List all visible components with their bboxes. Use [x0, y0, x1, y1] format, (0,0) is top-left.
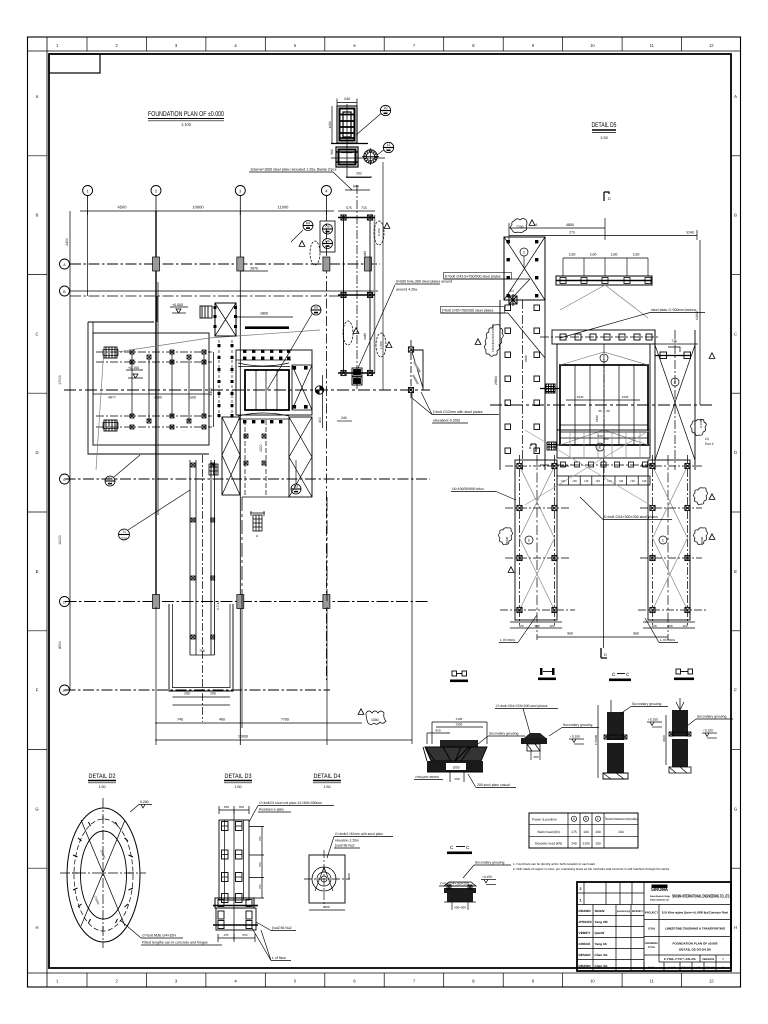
svg-text:DWG: DWG [648, 967, 654, 970]
right tower base dims [643, 621, 695, 623]
plate square [309, 855, 345, 903]
inner ellipse [81, 831, 127, 919]
grid bubble 2 [151, 186, 161, 196]
svg-text:435: 435 [223, 933, 228, 937]
grid bubble row A [60, 259, 70, 269]
section mark D top [604, 192, 609, 201]
svg-text:16×100/50/800 holes: 16×100/50/800 holes [452, 487, 484, 491]
grid bubble 4 [321, 186, 331, 196]
section 3 tall column [594, 700, 668, 779]
horizontal gridline B [70, 290, 378, 292]
svg-text:E: E [734, 569, 737, 574]
svg-text:MODIFY: MODIFY [632, 910, 643, 913]
svg-text:Fitted lengths can in concrete: Fitted lengths can in concrete and hinge… [142, 941, 208, 945]
svg-text:202: 202 [356, 172, 362, 176]
lower bolt row dash-dot lines [96, 415, 212, 417]
svg-text:930: 930 [597, 434, 602, 438]
svg-text:500: 500 [454, 777, 459, 781]
svg-text:elevation 1.20m: elevation 1.20m [335, 839, 359, 843]
svg-text:A: A [36, 94, 39, 99]
project row [644, 919, 731, 921]
svg-text:E=bolt ∅42.5×750/200 steel pla: E=bolt ∅42.5×750/200 steel plates [445, 275, 501, 279]
cloud A top [374, 221, 384, 245]
lower centre bay [245, 420, 266, 497]
svg-text:2: 2 [580, 887, 582, 891]
bolt cage upper [337, 106, 357, 143]
base block [336, 147, 358, 167]
svg-text:1500: 1500 [188, 396, 196, 400]
trench dim [190, 654, 215, 656]
svg-text:12: 12 [709, 979, 714, 984]
svg-text:DESIGN: DESIGN [579, 953, 592, 957]
svg-text:12: 12 [709, 43, 714, 48]
svg-text:11: 11 [650, 43, 655, 48]
svg-text:20: 20 [384, 106, 388, 110]
svg-text:C: C [63, 478, 66, 482]
svg-text:D4: D4 [306, 221, 310, 225]
inner heavy frame [49, 54, 731, 968]
section title D-D right [674, 669, 694, 680]
svg-text:1940: 1940 [577, 395, 584, 399]
bolt rows inside [222, 822, 243, 903]
svg-text:VERIFY: VERIFY [579, 931, 592, 935]
svg-text:Group Corporation Ltd.: Group Corporation Ltd. [650, 899, 669, 902]
svg-text:T1: T1 [122, 530, 126, 534]
svg-text:1100: 1100 [590, 253, 597, 257]
svg-text:1100: 1100 [569, 253, 576, 257]
svg-text:200 steel plate casual: 200 steel plate casual [477, 783, 510, 787]
svg-text:844: 844 [353, 185, 359, 189]
strip verticals [344, 215, 371, 373]
svg-text:Secondary grouting: Secondary grouting [632, 702, 662, 706]
svg-text:∅=bolt∅×32mm with steel plate: ∅=bolt∅×32mm with steel plate [335, 832, 383, 836]
bottom dims 435 635 [218, 937, 255, 939]
item row [644, 936, 731, 938]
base plate lower [216, 908, 256, 930]
dim line inside plant [93, 393, 209, 395]
svg-text:770: 770 [671, 339, 677, 343]
svg-text:175: 175 [571, 830, 577, 834]
svg-text:300: 300 [330, 149, 334, 155]
left vertical dims [69, 211, 71, 296]
svg-text:400: 400 [318, 417, 322, 423]
svg-text:1:50: 1:50 [324, 785, 331, 789]
svg-text:C: C [734, 331, 737, 336]
svg-text:10000: 10000 [238, 735, 248, 739]
svg-text:1:100: 1:100 [181, 122, 192, 127]
svg-text:D4: D4 [325, 239, 329, 243]
svg-text:Dynamic load (kN): Dynamic load (kN) [535, 842, 562, 846]
leader from beam [560, 285, 648, 318]
svg-text:575: 575 [346, 206, 352, 210]
svg-text:Secondary grouting: Secondary grouting [489, 732, 519, 736]
svg-text:∅=bolt∅6 steel rod plate 12×30: ∅=bolt∅6 steel rod plate 12×300×300mm [259, 801, 322, 805]
grid bubble 3 [235, 186, 245, 196]
svg-text:+0.100: +0.100 [703, 729, 713, 733]
svg-text:ITEM: ITEM [648, 927, 655, 931]
svg-text:740: 740 [630, 479, 635, 483]
740 dimension strip [557, 476, 650, 485]
column D4 [323, 595, 330, 609]
svg-text:1800: 1800 [260, 312, 268, 316]
inner dims [566, 399, 640, 401]
svg-text:2400: 2400 [65, 238, 69, 246]
svg-text:[=bolt ∅42×750/200 steel plate: [=bolt ∅42×750/200 steel plates [442, 309, 493, 313]
svg-text:D: D [608, 197, 611, 201]
svg-text:PROJECT: PROJECT [645, 911, 659, 915]
svg-text:740: 740 [618, 479, 623, 483]
svg-text:L of notes: L of notes [660, 638, 675, 642]
svg-text:17000: 17000 [58, 375, 62, 385]
hatched beam [245, 326, 289, 330]
svg-text:DRAWN: DRAWN [579, 964, 592, 968]
leader to hole label [358, 285, 395, 368]
dim 240 top [337, 102, 357, 104]
svg-text:Sinoma Research & Design: Sinoma Research & Design [650, 895, 670, 898]
svg-text:Chen XG: Chen XG [595, 964, 609, 968]
horizontal gridline C dash-dot [65, 478, 431, 480]
svg-text:1=5000: 1=5000 [594, 735, 598, 745]
callout bubble 1 [380, 105, 390, 115]
svg-text:Static load (kN): Static load (kN) [537, 830, 560, 834]
svg-text:200: 200 [533, 755, 538, 759]
svg-text:D: D [35, 450, 38, 455]
svg-text:500: 500 [603, 437, 608, 441]
svg-text:270: 270 [569, 231, 575, 235]
anchor block lower-left hatched [103, 420, 118, 431]
strip top dims [338, 210, 375, 212]
svg-text:1100: 1100 [633, 253, 640, 257]
svg-text:1. Fixed bars can be directly: 1. Fixed bars can be directly at the bol… [513, 862, 595, 866]
svg-text:SCALE: SCALE [682, 967, 691, 970]
svg-text:240: 240 [341, 416, 347, 420]
svg-text:D1: D1 [108, 477, 112, 481]
svg-text:1000: 1000 [371, 718, 379, 722]
svg-text:DETAIL D5: DETAIL D5 [592, 122, 617, 129]
strip bolts [341, 215, 346, 220]
plant outer boundary [88, 322, 209, 454]
strip beams [338, 218, 375, 374]
column body [219, 820, 249, 900]
svg-text:QianW: QianW [595, 931, 605, 935]
D5 bubble with long leader [311, 305, 321, 315]
svg-text:L of flare: L of flare [272, 956, 286, 960]
right dim chain [261, 827, 263, 899]
svg-text:E: E [36, 569, 39, 574]
svg-text:4100: 4100 [456, 717, 463, 721]
right tower outer [648, 460, 690, 620]
svg-text:D3: D3 [294, 485, 298, 489]
left tower outer [515, 460, 557, 620]
bolt circle dashed ellipse [74, 819, 133, 931]
svg-text:+0.150: +0.150 [648, 718, 658, 722]
svg-text:650: 650 [224, 805, 229, 809]
svg-text:19600: 19600 [505, 536, 509, 545]
bottom bolt band [238, 418, 290, 420]
gridline through D5 [490, 404, 712, 406]
svg-text:1200: 1200 [347, 873, 351, 880]
svg-text:VERSION: VERSION [702, 958, 714, 961]
svg-text:D: D [63, 600, 66, 604]
svg-text:Yang XM: Yang XM [595, 920, 608, 924]
svg-text:740: 740 [572, 479, 577, 483]
left ruler band line [46, 37, 48, 987]
main pit top band [540, 330, 660, 344]
svg-text:D: D [734, 450, 737, 455]
dark node circle on gridline [315, 386, 323, 394]
top dimension line [80, 196, 334, 216]
left tower bolts [517, 463, 522, 468]
svg-text:200: 200 [184, 692, 190, 696]
crosshair [60, 872, 146, 874]
svg-text:10200: 10200 [695, 311, 699, 320]
left tower X braces [520, 466, 555, 610]
bolt pairs lower row [130, 414, 134, 418]
bottom overall dims [536, 634, 538, 640]
flange ring top view [362, 148, 379, 165]
svg-text:1500: 1500 [595, 415, 599, 422]
column A5 [365, 257, 372, 271]
svg-text:F756-77C*-45-01: F756-77C*-45-01 [664, 957, 697, 961]
svg-text:120: 120 [518, 624, 523, 628]
title box top-left [49, 54, 100, 73]
svg-text:635: 635 [242, 933, 247, 937]
svg-text:4400: 4400 [209, 388, 213, 396]
svg-text:L of notes: L of notes [500, 638, 515, 642]
vertical dim right [699, 240, 701, 405]
svg-text:25800: 25800 [494, 376, 498, 385]
svg-text:1:50: 1:50 [600, 136, 607, 140]
main pit body [557, 344, 650, 445]
top ruler band line [28, 50, 742, 52]
svg-text:1:100: 1:100 [669, 967, 676, 970]
right X column upper [655, 330, 695, 470]
svg-text:D5: D5 [314, 306, 318, 310]
svg-text:2190: 2190 [582, 842, 590, 846]
number row [644, 955, 731, 971]
svg-text:Secondary grouting: Secondary grouting [563, 723, 593, 727]
horizontal gridline E dash-dot [65, 689, 331, 691]
svg-text:8500: 8500 [58, 641, 62, 649]
svg-text:240: 240 [344, 97, 350, 101]
beam body above [557, 430, 650, 458]
drawing title row [644, 954, 731, 956]
svg-text:Secondary grouting: Secondary grouting [475, 861, 505, 865]
svg-text:G: G [734, 806, 737, 811]
svg-text:T24: T24 [121, 537, 127, 541]
svg-text:600: 600 [324, 905, 329, 909]
svg-text:FOUNDATION PLAN OF ±0.000: FOUNDATION PLAN OF ±0.000 [148, 111, 224, 118]
svg-text:E1: E1 [510, 289, 514, 293]
svg-text:0.200: 0.200 [140, 800, 149, 804]
svg-text:3600: 3600 [662, 735, 666, 742]
svg-text:+0.150: +0.150 [128, 366, 139, 370]
cloud right [376, 333, 386, 357]
E bolt marks dark [507, 294, 519, 306]
svg-text:960: 960 [633, 632, 639, 636]
svg-text:1:20: 1:20 [99, 785, 106, 789]
svg-text:around 4.20a: around 4.20a [396, 288, 417, 292]
svg-text:LIMESTONE CRUSHING & TRANSPORT: LIMESTONE CRUSHING & TRANSPORTING [665, 927, 726, 931]
svg-text:4500: 4500 [118, 205, 128, 210]
svg-text:3300: 3300 [456, 723, 463, 727]
svg-text:1100: 1100 [611, 253, 618, 257]
svg-text:10: 10 [590, 979, 595, 984]
right tower clouds [694, 528, 708, 545]
svg-text:4480: 4480 [363, 251, 367, 258]
svg-text:Chen XG: Chen XG [595, 953, 609, 957]
svg-text:Tension between belt pulley: Tension between belt pulley [605, 817, 638, 821]
L2 section mark bottom [601, 648, 607, 658]
svg-text:2580: 2580 [524, 355, 528, 362]
svg-text:DRAWN: DRAWN [579, 909, 592, 913]
svg-text:7700: 7700 [516, 225, 524, 229]
right vertical dim 4400 [213, 352, 215, 427]
svg-text:C2: C2 [705, 437, 709, 441]
svg-text:H: H [734, 925, 737, 930]
left tower base dims [510, 621, 562, 623]
svg-text:0×500 hole,300 steel plates ar: 0×500 hole,300 steel plates around [396, 280, 452, 284]
svg-text:900: 900 [534, 624, 539, 628]
svg-text:TITLE: TITLE [648, 946, 655, 949]
svg-text:[=bolt ∅12mm with steel plates: [=bolt ∅12mm with steel plates [433, 410, 483, 414]
vertical gridline 1 [87, 211, 89, 296]
svg-text:740: 740 [584, 479, 589, 483]
svg-text:FIG NO: FIG NO [706, 967, 715, 970]
trench bolt pairs [191, 463, 195, 467]
label bolt mid [441, 307, 505, 314]
bolt beam top middle [556, 253, 652, 286]
svg-text:4480: 4480 [363, 333, 367, 340]
trench verticals [190, 460, 215, 655]
svg-text:11000: 11000 [278, 205, 290, 210]
upper bolt row dash-dot lines [96, 351, 212, 353]
grid bubble row D [60, 597, 70, 607]
hatched block top right [200, 306, 212, 318]
svg-text:8.0J Kilns regime Quern--AL 60: 8.0J Kilns regime Quern--AL 6000 t/pd Co… [662, 911, 728, 915]
svg-text:745: 745 [177, 718, 183, 722]
svg-text:DRAWING: DRAWING [645, 942, 658, 945]
svg-text:150: 150 [595, 842, 601, 846]
svg-text:∅=bolt ∅64×150×200 steel plate: ∅=bolt ∅64×150×200 steel plates [496, 704, 548, 708]
svg-text:Secondary grouting: Secondary grouting [697, 715, 727, 719]
svg-text:11: 11 [650, 979, 655, 984]
beam ticks right [249, 827, 264, 899]
svg-text:120: 120 [682, 624, 687, 628]
company row [644, 904, 731, 906]
dark anchor cluster [352, 368, 362, 385]
svg-text:CHECK: CHECK [579, 942, 592, 946]
svg-text:3975: 3975 [250, 267, 258, 271]
svg-text:650: 650 [239, 805, 244, 809]
svg-text:FOUNDATION PLAN OF ±0.000: FOUNDATION PLAN OF ±0.000 [673, 942, 718, 946]
horizontal gridline mid dash-dot [64, 389, 430, 391]
dim 202 under base [346, 177, 371, 179]
top dims 650 650 [219, 809, 249, 811]
svg-text:10000: 10000 [192, 205, 204, 210]
svg-text:Resistance plate: Resistance plate [259, 808, 284, 812]
svg-text:SIGN: SIGN [595, 909, 606, 913]
svg-text:elevation(-0.200): elevation(-0.200) [433, 419, 460, 423]
svg-text:180: 180 [583, 830, 589, 834]
svg-text:E=bolt ∅64×300×200 steel plate: E=bolt ∅64×300×200 steel plates [604, 515, 658, 519]
svg-text:H: H [35, 925, 38, 930]
svg-text:1:50: 1:50 [235, 785, 242, 789]
svg-text:FOUNDATION+8000: FOUNDATION+8000 [491, 324, 495, 352]
diameter lines [81, 820, 125, 926]
leader diagonals from plant [96, 330, 320, 470]
top-left X block [504, 237, 545, 300]
heavy inner rect [245, 370, 289, 410]
svg-text:Part 2: Part 2 [705, 442, 714, 446]
horizontal gridline A dash-dot [70, 263, 380, 265]
beam dim 1800 [236, 316, 293, 318]
bottom ruler band line [28, 972, 742, 974]
svg-text:4580: 4580 [154, 396, 162, 400]
svg-text:10: 10 [590, 43, 595, 48]
vertical gridline 4 [325, 211, 327, 680]
svg-text:500×500: 500×500 [454, 906, 466, 910]
svg-text:+0.600: +0.600 [172, 303, 183, 307]
svg-text:200: 200 [210, 692, 216, 696]
svg-text:120: 120 [549, 624, 554, 628]
svg-text:D6: D6 [325, 225, 329, 229]
plant inner boundary [93, 333, 209, 445]
left tower row lines [500, 466, 575, 610]
grid bubble row C [60, 474, 70, 484]
svg-text:0.1600: 0.1600 [699, 418, 703, 428]
small dark anchor bottom-left [209, 464, 218, 475]
svg-text:750: 750 [258, 836, 262, 841]
top bolt band [236, 359, 291, 361]
vertical main divider [643, 882, 645, 971]
column D2 [153, 595, 160, 609]
svg-text:760: 760 [199, 649, 205, 653]
svg-text:4800: 4800 [566, 223, 574, 227]
svg-text:DETAIL D4: DETAIL D4 [314, 773, 341, 780]
svg-text:B: B [734, 213, 737, 218]
svg-text:1.600: 1.600 [379, 341, 383, 349]
right clouds [691, 419, 707, 435]
dark bolt cluster at B [547, 442, 556, 450]
svg-text:1: 1 [580, 899, 582, 903]
U trench below gridline D [169, 604, 233, 691]
revision cloud bottom [358, 709, 386, 725]
svg-text:APPROVED: APPROVED [579, 920, 593, 924]
svg-text:90: 90 [606, 409, 610, 413]
bolts on ring [72, 816, 134, 930]
left dim 1200 [331, 106, 333, 143]
svg-text:2-7-14: 2-7-14 [216, 601, 220, 610]
bolt plates left of pit [546, 384, 555, 393]
bolt plates right of pit [655, 347, 691, 359]
column A3 [237, 257, 244, 271]
svg-text:960: 960 [567, 632, 573, 636]
vertical ties [132, 354, 204, 421]
svg-text:190: 190 [595, 830, 601, 834]
svg-text:1200: 1200 [328, 121, 332, 128]
dim 3975 under line A [240, 270, 268, 272]
svg-text:DETAIL D3: DETAIL D3 [225, 773, 252, 780]
svg-text:G: G [35, 806, 38, 811]
grid bubble 1 [83, 186, 93, 196]
L1 column structure [408, 340, 423, 398]
svg-text:1500: 1500 [259, 444, 263, 452]
centre vertical [603, 458, 605, 648]
svg-text:D: D [604, 653, 607, 657]
left strip footing [500, 300, 545, 470]
svg-text:1940: 1940 [622, 395, 629, 399]
